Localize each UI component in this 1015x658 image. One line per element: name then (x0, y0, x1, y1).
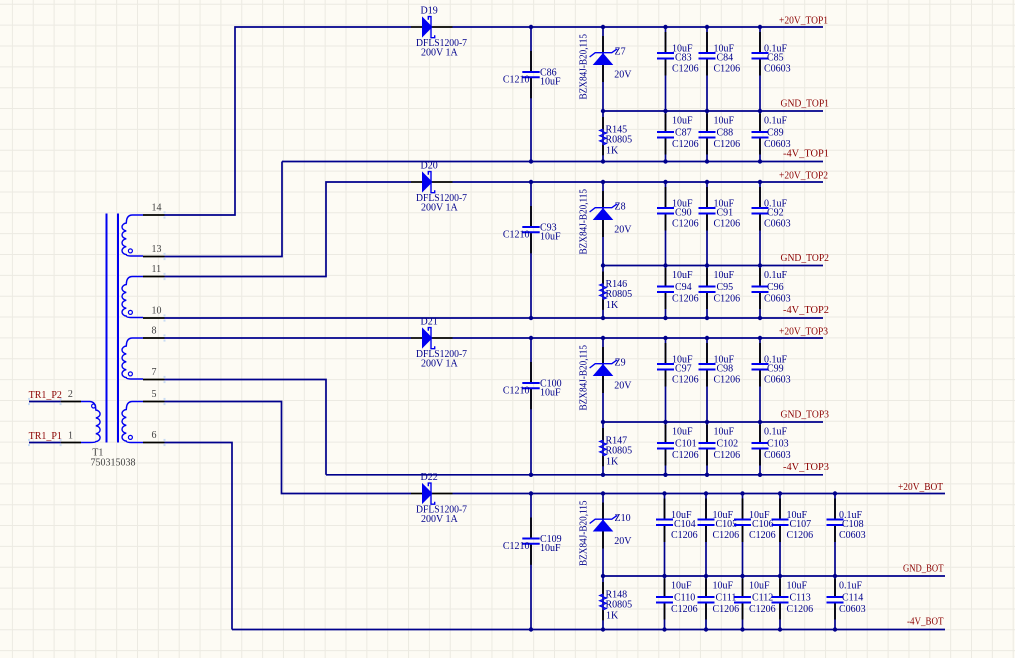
svg-text:10uF: 10uF (672, 427, 693, 438)
svg-text:1K: 1K (606, 146, 619, 157)
svg-text:C0603: C0603 (764, 218, 791, 229)
svg-text:Z10: Z10 (615, 513, 631, 524)
svg-text:C113: C113 (790, 593, 811, 604)
capacitor C84 plates (699, 52, 716, 54)
svg-text:C1206: C1206 (787, 604, 814, 615)
wire +20V_TOP1 rail (453, 26, 824, 28)
svg-text:10uF: 10uF (714, 427, 735, 438)
svg-text:C1206: C1206 (713, 530, 740, 541)
svg-text:8: 8 (152, 326, 157, 337)
capacitor C93 plates (522, 226, 539, 228)
transformer T1 core (106, 214, 108, 443)
wire pin8 to D21 anode (165, 337, 412, 339)
capacitor C103 wire+pins (759, 422, 761, 443)
capacitor C95 wire+pins (706, 266, 708, 287)
svg-text:C88: C88 (717, 128, 734, 139)
capacitor C98 plates (699, 363, 716, 365)
wire pin11 to D20 anode (165, 182, 412, 277)
capacitor C108 wire+pins (834, 494, 836, 520)
capacitor C109 plates (522, 538, 539, 540)
transformer T1 secondary winding 2 polarity dot (128, 310, 132, 314)
capacitor C99 wire+pins (759, 338, 761, 364)
svg-text:C111: C111 (716, 593, 737, 604)
svg-text:1: 1 (68, 431, 73, 442)
junctions on -4V_TOP2 (529, 316, 533, 320)
svg-text:-4V_TOP2: -4V_TOP2 (783, 305, 829, 316)
svg-text:C1206: C1206 (672, 374, 699, 385)
pin 13 of T1 (143, 256, 165, 258)
svg-text:C0603: C0603 (839, 530, 866, 541)
capacitor C98 wire+pins (706, 338, 708, 364)
svg-text:C1210: C1210 (503, 75, 530, 86)
svg-text:+20V_BOT: +20V_BOT (898, 482, 943, 493)
svg-text:C85: C85 (767, 52, 784, 63)
svg-text:C1206: C1206 (714, 294, 741, 305)
pin 10 of T1 (143, 317, 165, 319)
svg-text:C101: C101 (675, 439, 697, 450)
pin 8 of T1 (143, 337, 165, 339)
svg-text:C1206: C1206 (749, 604, 776, 615)
transformer T1 secondary winding 4 (122, 402, 143, 443)
svg-text:C0603: C0603 (764, 374, 791, 385)
zener Z9 symbol (593, 364, 614, 376)
capacitor C85 wire+pins (759, 27, 761, 53)
wire GND_TOP2 rail (603, 265, 823, 267)
resistor R146 zigzag (600, 284, 606, 300)
capacitor C92 wire+pins (759, 182, 761, 208)
capacitor C112 wire+pins (742, 576, 744, 597)
wire pin7 to -4V_TOP3 rail (165, 380, 327, 475)
diode D20 symbol (422, 171, 433, 192)
capacitor C114 plates (827, 596, 844, 598)
svg-text:10uF: 10uF (672, 270, 693, 281)
svg-text:10uF: 10uF (714, 116, 735, 127)
svg-text:20V: 20V (614, 536, 632, 547)
svg-text:0.1uF: 0.1uF (764, 427, 788, 438)
svg-text:C91: C91 (717, 207, 734, 218)
pin 5 of T1 (143, 401, 165, 403)
junctions on +20V_TOP1 (529, 25, 533, 29)
capacitor C83 wire+pins (665, 27, 667, 53)
svg-text:10uF: 10uF (749, 581, 770, 592)
capacitor C86 wire+pins (530, 27, 532, 72)
capacitor C91 wire+pins (706, 182, 708, 208)
capacitor C106 wire+pins (742, 494, 744, 520)
resistor R147 zigzag (600, 440, 606, 456)
svg-text:C1206: C1206 (749, 530, 776, 541)
svg-text:C83: C83 (675, 52, 692, 63)
zener Z8 symbol (593, 208, 614, 220)
svg-text:10uF: 10uF (671, 581, 692, 592)
capacitor C90 plates (657, 207, 674, 209)
svg-text:10uF: 10uF (714, 270, 735, 281)
diode D21 symbol (422, 327, 433, 348)
transformer T1 primary polarity dot (92, 404, 96, 408)
junctions on +20V_BOT (529, 491, 533, 495)
svg-text:C1206: C1206 (672, 218, 699, 229)
pin 2 of T1 (61, 401, 81, 403)
capacitor C85 plates (752, 52, 769, 54)
wire +20V_TOP2 rail (453, 181, 824, 183)
svg-text:C90: C90 (675, 207, 692, 218)
capacitor C106 plates (734, 519, 751, 521)
capacitor C86 plates (522, 71, 539, 73)
resistor R146 wire+pins (602, 266, 604, 319)
capacitor C87 wire+pins (665, 111, 667, 132)
diode D20 pins (411, 181, 422, 183)
pin 7 of T1 (143, 379, 165, 381)
svg-text:200V 1A: 200V 1A (421, 203, 459, 214)
resistor R148 zigzag (600, 594, 606, 610)
svg-text:TR1_P2: TR1_P2 (29, 390, 62, 401)
svg-text:1K: 1K (606, 611, 619, 622)
svg-text:BZX84J-B20,115: BZX84J-B20,115 (579, 345, 590, 411)
svg-text:C84: C84 (717, 52, 734, 63)
svg-text:10: 10 (152, 306, 162, 317)
svg-text:C96: C96 (767, 282, 784, 293)
svg-text:Z8: Z8 (615, 202, 626, 213)
svg-text:10uF: 10uF (540, 232, 561, 243)
svg-text:+20V_TOP3: +20V_TOP3 (779, 327, 828, 338)
capacitor C110 plates (656, 596, 673, 598)
capacitor C100 plates (522, 382, 539, 384)
junctions on GND_TOP3 (601, 420, 605, 424)
capacitor C113 plates (772, 596, 789, 598)
svg-text:GND_TOP3: GND_TOP3 (781, 410, 830, 421)
resistor R148 wire+pins (602, 576, 604, 630)
resistor R147 wire+pins (602, 422, 604, 475)
zener Z10 symbol (593, 520, 614, 532)
wire pin5 to D22 anode (165, 402, 412, 494)
diode D22 pins (411, 493, 422, 495)
junctions on +20V_TOP3 (529, 336, 533, 340)
svg-text:C87: C87 (675, 128, 692, 139)
svg-text:0.1uF: 0.1uF (764, 116, 788, 127)
svg-text:C98: C98 (717, 363, 734, 374)
capacitor C111 plates (698, 596, 715, 598)
wire +20V_BOT rail (453, 493, 946, 495)
svg-text:C105: C105 (716, 519, 738, 530)
svg-text:13: 13 (152, 244, 162, 255)
capacitor C102 wire+pins (706, 422, 708, 443)
svg-text:1K: 1K (606, 300, 619, 311)
svg-text:C1206: C1206 (714, 374, 741, 385)
transformer T1 secondary winding 3 polarity dot (128, 372, 132, 376)
diode D22 symbol (422, 483, 433, 504)
pin 14 of T1 (143, 214, 165, 216)
capacitor C93 wire+pins (530, 182, 532, 227)
svg-text:GND_BOT: GND_BOT (903, 564, 944, 575)
svg-text:2: 2 (68, 389, 73, 400)
diode D19 pins (411, 26, 422, 28)
resistor R145 wire+pins (602, 111, 604, 162)
junctions on -4V_TOP3 (529, 473, 533, 477)
junctions on +20V_TOP2 (529, 180, 533, 184)
svg-text:TR1_P1: TR1_P1 (29, 431, 62, 442)
svg-text:Z9: Z9 (615, 358, 626, 369)
capacitor C104 wire+pins (664, 494, 666, 520)
svg-text:C1206: C1206 (671, 604, 698, 615)
svg-text:C0603: C0603 (764, 450, 791, 461)
svg-text:D19: D19 (421, 6, 438, 17)
svg-text:20V: 20V (614, 69, 632, 80)
capacitor C89 plates (752, 131, 769, 133)
diode D19 symbol (422, 16, 433, 37)
svg-text:C103: C103 (767, 439, 789, 450)
svg-text:C1206: C1206 (714, 450, 741, 461)
svg-text:200V 1A: 200V 1A (421, 514, 459, 525)
wire GND_BOT rail (603, 575, 945, 577)
capacitor C87 plates (657, 131, 674, 133)
capacitor C88 wire+pins (706, 111, 708, 132)
svg-text:C114: C114 (842, 593, 863, 604)
junctions on -4V_TOP1 (529, 159, 533, 163)
svg-text:BZX84J-B20,115: BZX84J-B20,115 (579, 34, 590, 100)
svg-text:C89: C89 (767, 128, 784, 139)
capacitor C88 plates (699, 131, 716, 133)
zener Z10 wire+pins (602, 494, 604, 577)
svg-text:14: 14 (152, 203, 162, 214)
junctions on GND_TOP1 (601, 109, 605, 113)
svg-text:C97: C97 (675, 363, 692, 374)
capacitor C100 wire+pins (530, 338, 532, 383)
svg-text:C110: C110 (674, 593, 695, 604)
pin 11 of T1 (143, 276, 165, 278)
svg-text:750315038: 750315038 (91, 458, 136, 469)
svg-text:GND_TOP2: GND_TOP2 (781, 253, 830, 264)
capacitor C110 wire+pins (664, 576, 666, 597)
transformer T1 secondary winding 1 (122, 215, 143, 256)
diode D21 pins (411, 337, 422, 339)
svg-text:7: 7 (152, 367, 157, 378)
svg-text:C0603: C0603 (764, 139, 791, 150)
wire pin13 to -4V_TOP1 rail (165, 162, 283, 257)
capacitor C92 plates (752, 207, 769, 209)
svg-text:C1206: C1206 (714, 139, 741, 150)
junctions on -4V_BOT (529, 627, 533, 631)
junctions on GND_TOP2 (601, 263, 605, 267)
svg-text:C1210: C1210 (503, 386, 530, 397)
svg-text:10uF: 10uF (540, 543, 561, 554)
wire -4V_BOT rail (232, 629, 945, 631)
capacitor C99 plates (752, 363, 769, 365)
svg-text:C106: C106 (752, 519, 774, 530)
svg-text:C1206: C1206 (713, 604, 740, 615)
capacitor C109 wire+pins (530, 494, 532, 539)
svg-text:GND_TOP1: GND_TOP1 (781, 99, 830, 110)
svg-text:C94: C94 (675, 282, 692, 293)
svg-text:200V 1A: 200V 1A (421, 48, 459, 59)
svg-text:200V 1A: 200V 1A (421, 359, 459, 370)
wire pin10 to -4V_TOP2 rail (165, 317, 283, 319)
capacitor C101 wire+pins (665, 422, 667, 443)
capacitor C83 plates (657, 52, 674, 54)
svg-text:0.1uF: 0.1uF (764, 270, 788, 281)
svg-text:C1206: C1206 (672, 63, 699, 74)
svg-text:R0805: R0805 (606, 599, 633, 610)
svg-text:11: 11 (152, 264, 162, 275)
svg-text:10uF: 10uF (540, 77, 561, 88)
capacitor C114 wire+pins (834, 576, 836, 597)
svg-text:C99: C99 (767, 363, 784, 374)
svg-text:C92: C92 (767, 207, 784, 218)
svg-text:C1206: C1206 (714, 218, 741, 229)
zener Z8 wire+pins (602, 182, 604, 266)
svg-text:C107: C107 (790, 519, 812, 530)
svg-text:D20: D20 (421, 161, 438, 172)
capacitor C94 plates (657, 286, 674, 288)
svg-text:BZX84J-B20,115: BZX84J-B20,115 (579, 189, 590, 255)
capacitor C97 wire+pins (665, 338, 667, 364)
svg-text:-4V_TOP1: -4V_TOP1 (783, 149, 829, 160)
capacitor C102 plates (699, 442, 716, 444)
transformer T1 primary winding (81, 402, 100, 443)
capacitor C113 wire+pins (779, 576, 781, 597)
svg-text:C112: C112 (752, 593, 773, 604)
svg-text:20V: 20V (614, 224, 632, 235)
capacitor C103 plates (752, 442, 769, 444)
svg-text:BZX84J-B20,115: BZX84J-B20,115 (579, 501, 590, 567)
capacitor C107 wire+pins (779, 494, 781, 520)
capacitor C107 plates (772, 519, 789, 521)
capacitor C105 plates (698, 519, 715, 521)
wire +20V_TOP3 rail (453, 337, 824, 339)
svg-text:6: 6 (152, 430, 157, 441)
capacitor C96 plates (752, 286, 769, 288)
svg-text:10uF: 10uF (787, 581, 808, 592)
svg-text:C1206: C1206 (671, 530, 698, 541)
svg-text:-4V_BOT: -4V_BOT (907, 617, 944, 628)
svg-text:20V: 20V (614, 380, 632, 391)
capacitor C104 plates (656, 519, 673, 521)
wire GND_TOP3 rail (603, 421, 823, 423)
svg-text:10uF: 10uF (540, 388, 561, 399)
net label TR1_P1 wire (29, 442, 61, 444)
capacitor C84 wire+pins (706, 27, 708, 53)
capacitor C112 plates (734, 596, 751, 598)
capacitor C96 wire+pins (759, 266, 761, 287)
svg-text:Z7: Z7 (615, 47, 626, 58)
svg-text:C1210: C1210 (503, 230, 530, 241)
svg-text:D21: D21 (421, 317, 438, 328)
wire pin14 to D19 anode (165, 27, 412, 215)
transformer T1 secondary winding 3 (122, 338, 143, 379)
svg-text:C1206: C1206 (787, 530, 814, 541)
svg-text:R0805: R0805 (606, 445, 633, 456)
zener Z9 wire+pins (602, 338, 604, 422)
svg-text:C1206: C1206 (672, 139, 699, 150)
svg-text:-4V_TOP3: -4V_TOP3 (783, 462, 829, 473)
wire -4V_TOP2 rail (282, 317, 823, 319)
svg-text:C1206: C1206 (672, 450, 699, 461)
capacitor C94 wire+pins (665, 266, 667, 287)
svg-text:5: 5 (152, 389, 157, 400)
svg-text:C0603: C0603 (839, 604, 866, 615)
transformer T1 secondary winding 4 polarity dot (128, 435, 132, 439)
svg-text:C102: C102 (717, 439, 739, 450)
transformer T1 secondary winding 2 (122, 277, 143, 318)
junctions on GND_BOT (601, 574, 605, 578)
capacitor C101 plates (657, 442, 674, 444)
transformer T1 secondary winding 1 polarity dot (128, 249, 132, 253)
wire -4V_TOP3 rail (326, 474, 823, 476)
svg-text:0.1uF: 0.1uF (839, 581, 863, 592)
svg-text:C0603: C0603 (764, 63, 791, 74)
zener Z7 wire+pins (602, 27, 604, 111)
pin 1 of T1 (61, 442, 81, 444)
svg-text:C108: C108 (842, 519, 864, 530)
svg-text:10uF: 10uF (713, 581, 734, 592)
resistor R145 zigzag (600, 129, 606, 145)
svg-text:+20V_TOP2: +20V_TOP2 (779, 171, 828, 182)
capacitor C89 wire+pins (759, 111, 761, 132)
wire pin6 to -4V_BOT rail (165, 443, 233, 630)
capacitor C91 plates (699, 207, 716, 209)
svg-text:1K: 1K (606, 457, 619, 468)
pin 6 of T1 (143, 442, 165, 444)
wire GND_TOP1 rail (603, 110, 823, 112)
svg-text:C1206: C1206 (714, 63, 741, 74)
svg-text:C1210: C1210 (503, 541, 530, 552)
svg-text:C95: C95 (717, 282, 734, 293)
zener Z7 symbol (593, 53, 614, 65)
svg-text:10uF: 10uF (672, 116, 693, 127)
capacitor C95 plates (699, 286, 716, 288)
capacitor C90 wire+pins (665, 182, 667, 208)
svg-text:R0805: R0805 (606, 289, 633, 300)
capacitor C108 plates (827, 519, 844, 521)
net label TR1_P2 wire (29, 401, 61, 403)
svg-text:+20V_TOP1: +20V_TOP1 (779, 16, 828, 27)
svg-text:D22: D22 (421, 472, 438, 483)
capacitor C105 wire+pins (705, 494, 707, 520)
wire -4V_TOP1 rail (282, 161, 823, 163)
svg-text:C104: C104 (674, 519, 696, 530)
capacitor C97 plates (657, 363, 674, 365)
capacitor C111 wire+pins (705, 576, 707, 597)
svg-text:R0805: R0805 (606, 134, 633, 145)
svg-text:C1206: C1206 (672, 294, 699, 305)
svg-text:C0603: C0603 (764, 294, 791, 305)
